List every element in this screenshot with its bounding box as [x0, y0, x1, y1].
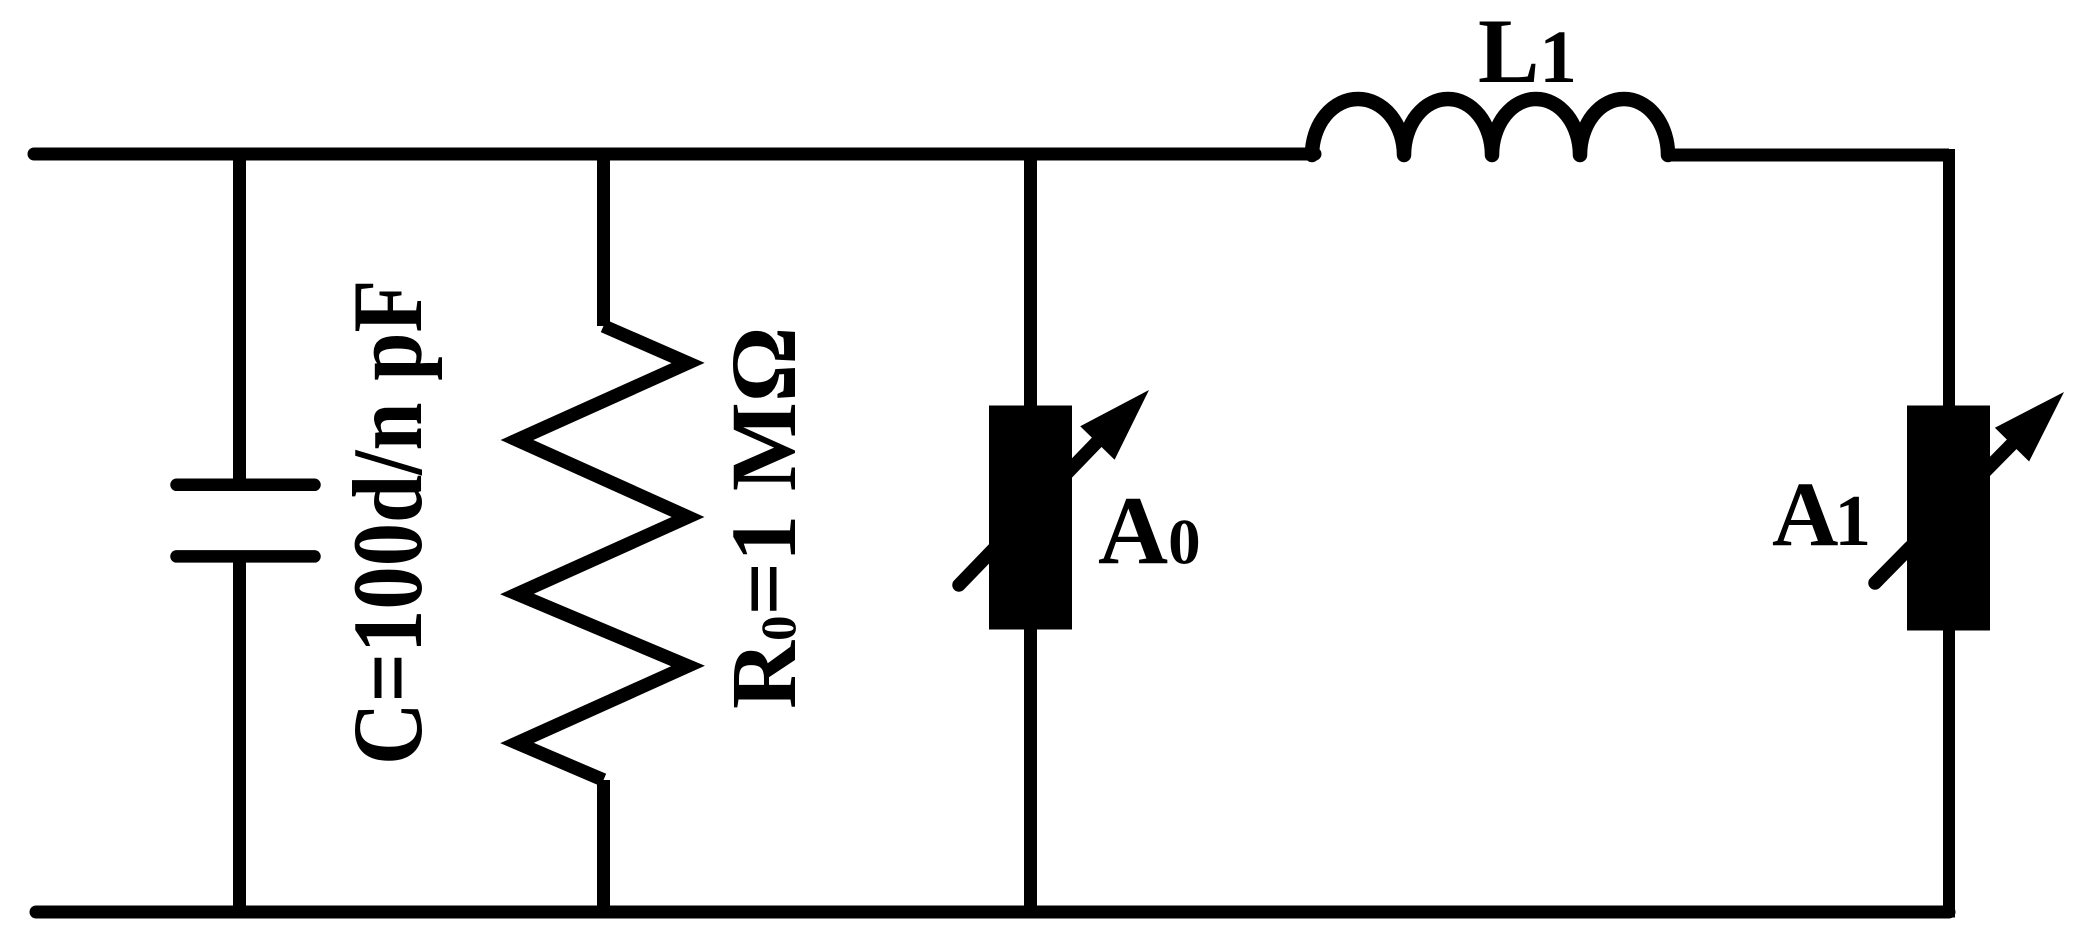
wire top horizontal right of L1 [1666, 149, 1949, 162]
variable attenuator A1 arrowhead [1995, 392, 2064, 462]
variable attenuator A0 arrow shaft [959, 442, 1097, 585]
wire bottom horizontal [36, 906, 1949, 919]
wire top horizontal [34, 148, 1315, 161]
wire right vertical upper [1943, 149, 1955, 410]
capacitor C top plate [177, 479, 315, 492]
variable attenuator A1 arrow shaft [1875, 444, 2012, 583]
capacitor C bottom lead [233, 562, 246, 911]
resistor R0 bottom lead [597, 780, 610, 911]
variable attenuator A0 body [989, 406, 1072, 630]
wire right vertical lower [1943, 625, 1955, 918]
svg-text:L1: L1 [1478, 0, 1577, 102]
svg-text:R0=1 MΩ: R0=1 MΩ [714, 327, 816, 709]
capacitor C bottom plate [177, 550, 315, 563]
resistor R0 zigzag [517, 326, 688, 780]
inductor L1 [1312, 99, 1668, 155]
svg-text:C=100d/n pF: C=100d/n pF [333, 280, 443, 765]
variable attenuator A0 top lead [1024, 154, 1037, 410]
variable attenuator A0 arrowhead [1080, 390, 1149, 460]
variable attenuator A1 body [1907, 406, 1990, 631]
capacitor C top lead [233, 154, 246, 479]
resistor R0 top lead [597, 154, 610, 326]
variable attenuator A0 bottom lead [1024, 625, 1037, 911]
